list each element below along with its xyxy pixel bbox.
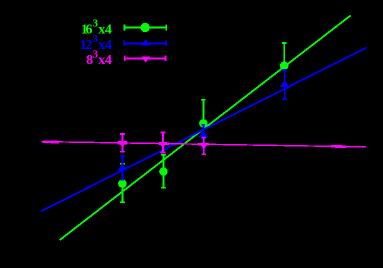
magenta x-bar M1 [117, 142, 127, 145]
green cap P1 bottom [120, 201, 125, 203]
legend entry 1: 16^3x4 green [81, 18, 166, 38]
svg-text:12: 12 [80, 38, 93, 53]
magenta fit line (8^3x4) [42, 142, 367, 147]
green series (16^3x4) error bars, caps and circle markers [118, 43, 288, 202]
blue series (12^3x4) error bars and triangle markers [117, 70, 289, 180]
blue cap B3 top (over green circle) [202, 124, 206, 126]
green bar P3 [202, 100, 204, 144]
green cap P1 top [120, 163, 125, 165]
legend entry 3: 8^3x4 magenta [86, 48, 165, 68]
blue bar B1 [121, 156, 123, 179]
green cap P3 bottom [201, 143, 206, 145]
svg-text:x4: x4 [98, 22, 112, 37]
magenta cap M3 bottom [201, 153, 206, 155]
blue triangle B4 [280, 80, 290, 87]
magenta triangle M2 [159, 142, 168, 148]
magenta triangle M1 [118, 141, 127, 147]
magenta x-bar M2 [158, 142, 169, 145]
magenta x-error segment left [43, 141, 59, 144]
blue bar B3 [202, 125, 204, 149]
green circle G3 [199, 119, 208, 128]
blue fit line (12^3x4) [41, 48, 366, 212]
svg-text:x4: x4 [98, 53, 112, 68]
magenta cap M1 bottom [120, 151, 125, 153]
green circle G2 [159, 167, 168, 176]
green bar P2 [163, 155, 165, 188]
magenta bar M1 [122, 134, 124, 152]
blue cap B1 bottom [121, 179, 125, 181]
svg-text:16: 16 [81, 22, 93, 37]
blue cap B4 top [282, 69, 287, 71]
magenta cap M3 top [201, 137, 206, 139]
blue cap B4 bottom [282, 98, 287, 100]
magenta bar M3 [203, 138, 205, 155]
green cap P2 top [161, 154, 166, 156]
blue cap B1 top [120, 155, 125, 157]
magenta cap M2 top [161, 132, 166, 134]
magenta series (8^3x4) error bars and down-triangle markers [117, 133, 209, 155]
magenta x-error segment right [331, 145, 346, 148]
magenta x-bar M3 [197, 143, 209, 146]
magenta cap M1 top [120, 133, 125, 135]
green cap P2 bottom [161, 187, 166, 189]
blue bar B4 [284, 70, 286, 99]
green circle G4 [280, 62, 289, 71]
magenta cap M2 bottom [161, 152, 166, 154]
green bar P4 [283, 43, 285, 66]
blue cap B3 bottom [201, 147, 206, 149]
magenta triangle M3 [199, 143, 208, 149]
magenta bar M2 [162, 133, 164, 153]
blue triangle B1 [117, 164, 127, 171]
green cap P3 top [201, 99, 206, 101]
legend entry 2: 12^3x4 blue [80, 33, 167, 53]
green circle G1 [118, 179, 127, 188]
green bar P1 [121, 164, 123, 203]
svg-text:x4: x4 [98, 38, 112, 53]
green cap P4 top [282, 42, 287, 44]
blue triangle B3 [198, 131, 208, 138]
green fit line (16^3x4) [60, 15, 351, 240]
